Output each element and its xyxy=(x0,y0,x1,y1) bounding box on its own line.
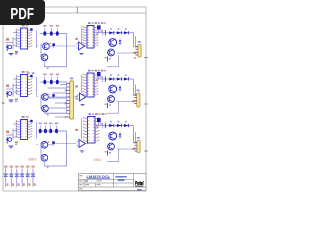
op-amp U4B xyxy=(80,93,86,101)
wire to J1 xyxy=(55,102,67,104)
transistor Q2 xyxy=(43,43,50,50)
wire xyxy=(66,82,68,113)
label C4 xyxy=(43,74,45,76)
title block frame xyxy=(79,174,147,191)
label above U1 xyxy=(22,25,25,27)
label above J1 xyxy=(70,78,73,80)
transistor Q11 input xyxy=(8,138,12,142)
value C25 xyxy=(34,183,36,186)
resistor R2 xyxy=(107,103,109,108)
wire loop xyxy=(45,66,67,68)
zone tick left xyxy=(2,102,5,104)
label net IN3 xyxy=(6,131,9,133)
label xyxy=(15,142,18,144)
labels above U6 xyxy=(89,113,92,115)
ground xyxy=(81,103,85,105)
power port VCC near U3 xyxy=(30,75,32,77)
wire xyxy=(81,75,83,93)
wire xyxy=(6,134,13,136)
zone tick right C xyxy=(144,150,147,152)
capacitor C in3 xyxy=(6,137,8,144)
wire xyxy=(117,136,127,138)
wire xyxy=(133,79,135,96)
power port -V xyxy=(52,94,55,97)
junction xyxy=(48,141,50,142)
wire xyxy=(77,141,80,143)
diode D12 xyxy=(119,134,122,137)
power port +V arrow xyxy=(97,118,101,122)
wire xyxy=(36,30,38,48)
amplifier IC U6 xyxy=(88,117,96,144)
transistor Q8 xyxy=(42,105,49,112)
capacitor C8 xyxy=(44,129,47,134)
junction xyxy=(47,68,49,70)
connector J3 xyxy=(137,93,140,107)
label xyxy=(75,129,77,131)
power port +V arrow xyxy=(97,25,101,29)
diode D2 xyxy=(117,31,121,34)
label C25 xyxy=(31,166,34,168)
diode D6 xyxy=(117,77,121,80)
diode D11 xyxy=(124,124,128,127)
op-amp IC U1 xyxy=(21,28,28,49)
capacitor C7 xyxy=(39,129,42,134)
title tiny gray marks xyxy=(79,175,82,176)
wire xyxy=(117,101,137,103)
capacitor C22 polarized xyxy=(16,169,18,174)
wire xyxy=(117,148,137,150)
wire to J1 xyxy=(48,97,67,99)
wire base bus xyxy=(40,95,42,110)
label net IN1 xyxy=(6,38,9,40)
wire signal xyxy=(55,96,77,98)
wire xyxy=(37,96,39,98)
diode D8 xyxy=(119,87,122,90)
label net IN2 xyxy=(6,85,9,87)
label above J3 xyxy=(137,90,140,92)
label C8 xyxy=(44,123,46,125)
junction xyxy=(48,94,50,95)
wire rail xyxy=(40,81,67,83)
wire xyxy=(37,45,39,47)
label xyxy=(75,85,77,87)
label right of J1 xyxy=(76,96,78,98)
op-amp IC U3 xyxy=(21,75,28,97)
label J2 xyxy=(133,52,136,54)
diode D10 xyxy=(117,124,121,127)
value C21 xyxy=(12,183,14,186)
value C24 xyxy=(29,183,31,186)
svg-text:1984: 1984 xyxy=(93,158,101,162)
wire xyxy=(117,52,138,54)
value C22 xyxy=(18,183,20,186)
wire xyxy=(117,89,127,91)
label xyxy=(15,51,18,53)
wire to J1 xyxy=(48,87,67,89)
wire xyxy=(13,123,18,125)
op-amp IC U5 xyxy=(21,120,28,140)
zone tick top xyxy=(76,7,78,13)
wire xyxy=(118,102,120,113)
sheet-of text blue xyxy=(137,189,142,190)
zone tick right B xyxy=(144,103,147,105)
ground xyxy=(9,53,14,55)
wire signal xyxy=(55,45,76,47)
label C9 xyxy=(49,123,51,125)
label C23 xyxy=(21,166,24,168)
resistor R1 xyxy=(107,57,109,62)
value C23 xyxy=(23,183,25,186)
label xyxy=(75,38,77,40)
wire rail diodes xyxy=(96,32,134,34)
label C5 xyxy=(50,74,52,76)
capacitor C6 xyxy=(56,80,59,85)
label C10 xyxy=(55,123,57,125)
wire xyxy=(13,32,18,34)
wire xyxy=(133,126,135,144)
diode D5 xyxy=(109,77,113,80)
capacitor C in1 xyxy=(6,45,8,52)
svg-text:38BX: 38BX xyxy=(28,157,37,161)
wire rail xyxy=(40,130,67,132)
label above J4 xyxy=(137,137,140,139)
wire xyxy=(81,119,83,140)
transistor Q10 output xyxy=(108,96,115,103)
resistor R3 xyxy=(107,151,109,156)
label C22 xyxy=(15,166,18,168)
amplifier IC U4 xyxy=(87,73,94,97)
ground xyxy=(9,145,14,147)
transistor Q6 input xyxy=(8,92,12,96)
wire xyxy=(82,74,85,76)
capacitor C3 xyxy=(56,31,59,36)
zone tick right A xyxy=(144,57,147,59)
wire input bus U5 xyxy=(15,121,17,138)
wire xyxy=(77,94,80,96)
wire xyxy=(37,143,39,145)
label J4 xyxy=(132,148,135,150)
capacitor C21 polarized xyxy=(10,169,12,174)
transistor Q14 output xyxy=(109,132,117,140)
junction xyxy=(47,114,49,116)
resistor network xyxy=(100,123,102,125)
resistor network xyxy=(100,30,102,32)
wire base bus xyxy=(40,44,42,58)
wire xyxy=(12,129,14,140)
wire to J1 xyxy=(55,116,67,118)
labels above U4 xyxy=(88,70,91,72)
wire xyxy=(82,118,85,120)
ground xyxy=(80,150,84,152)
power port -V xyxy=(52,141,55,144)
wire xyxy=(49,45,54,47)
wire loop xyxy=(45,165,67,167)
wire xyxy=(81,28,83,45)
diode D3 xyxy=(124,31,128,34)
label J1 xyxy=(65,90,67,92)
transistor Q3 xyxy=(41,54,48,61)
diode D1 xyxy=(109,31,113,34)
label xyxy=(134,57,136,59)
capacitor C in2 xyxy=(6,91,8,98)
wire to J1 xyxy=(60,84,67,86)
wire input bus U3 xyxy=(15,76,17,95)
connector J1 power header xyxy=(70,81,74,119)
value C20 xyxy=(7,183,9,186)
diode D4 xyxy=(119,40,122,43)
transistor Q9 output xyxy=(109,85,117,93)
wire xyxy=(47,144,53,146)
connector J2 xyxy=(138,45,141,58)
label above J2 xyxy=(138,41,141,43)
label C7 xyxy=(39,123,41,125)
wire xyxy=(12,84,14,97)
power port -V xyxy=(52,43,55,46)
wire xyxy=(6,88,13,90)
wire to J1 xyxy=(48,107,67,109)
wire signal xyxy=(55,143,77,145)
wire xyxy=(133,33,135,47)
label C6 xyxy=(56,74,58,76)
ground xyxy=(80,52,84,54)
label above U3 xyxy=(22,71,25,73)
label above U5 xyxy=(22,116,25,118)
wire xyxy=(48,96,54,98)
capacitor C9 xyxy=(49,129,52,134)
transistor Q5 output xyxy=(108,49,115,56)
wire xyxy=(76,43,79,45)
wire xyxy=(135,132,137,143)
label C2 xyxy=(50,25,52,27)
label J3 xyxy=(132,100,135,102)
wire rail diodes xyxy=(96,125,134,127)
label C24 xyxy=(26,166,29,168)
label C21 xyxy=(10,166,13,168)
wire input bus U1 xyxy=(15,30,17,48)
capacitor C4 xyxy=(43,80,46,85)
capacitor C25 polarized xyxy=(32,169,34,174)
capacitor C2 xyxy=(50,31,53,36)
wire xyxy=(12,37,14,49)
capacitor C5 xyxy=(50,80,53,85)
capacitor C1 xyxy=(43,31,46,36)
label C1 xyxy=(43,25,45,27)
label C3 xyxy=(56,25,58,27)
transistor Q7 xyxy=(42,94,49,101)
label C20 xyxy=(4,166,7,168)
resistor network xyxy=(100,76,102,78)
wire rail diodes xyxy=(96,78,134,80)
connector J4 xyxy=(137,141,140,153)
diode D9 xyxy=(109,124,113,127)
op-amp U2B xyxy=(79,42,85,50)
power port +V arrow xyxy=(97,72,101,76)
amplifier IC U2 xyxy=(87,26,94,49)
capacitor C23 polarized xyxy=(21,169,23,174)
wire xyxy=(66,131,68,166)
capacitor C10 xyxy=(55,129,58,134)
wire to J1 xyxy=(45,112,67,114)
wire loop xyxy=(45,112,67,114)
wire xyxy=(135,85,137,96)
transistor Q12 xyxy=(41,142,48,149)
designed-by text blue xyxy=(115,176,127,178)
op-amp U6B xyxy=(79,140,85,148)
power port VCC near U1 xyxy=(30,28,32,30)
diode D7 xyxy=(124,77,128,80)
sheet border inner zone line xyxy=(45,12,147,14)
PDF badge overlay xyxy=(0,0,45,25)
wire xyxy=(135,36,137,47)
wire xyxy=(36,77,38,96)
wire xyxy=(66,34,68,67)
transistor Q4 output xyxy=(109,39,117,47)
capacitor C24 polarized xyxy=(27,169,29,174)
wire rail xyxy=(40,33,67,35)
transistor Q15 output xyxy=(108,143,115,150)
label xyxy=(15,51,18,53)
capacitor C20 polarized xyxy=(5,169,7,174)
wire base bus xyxy=(40,142,42,158)
wire xyxy=(6,42,13,44)
wire to J1 xyxy=(52,92,67,94)
junction xyxy=(47,167,49,169)
sheet border outer xyxy=(3,6,146,8)
label xyxy=(27,72,30,74)
wire xyxy=(117,43,127,45)
wire xyxy=(82,27,85,29)
label xyxy=(15,99,18,101)
transistor Q1 input xyxy=(8,45,12,49)
ground xyxy=(9,99,14,101)
junction xyxy=(49,43,51,44)
power port VCC near U5 xyxy=(30,120,32,122)
wire xyxy=(36,122,38,139)
wire xyxy=(118,56,120,67)
wire xyxy=(118,150,120,162)
transistor Q13 xyxy=(41,154,48,161)
labels above U2 xyxy=(88,22,91,24)
wire xyxy=(13,78,18,80)
